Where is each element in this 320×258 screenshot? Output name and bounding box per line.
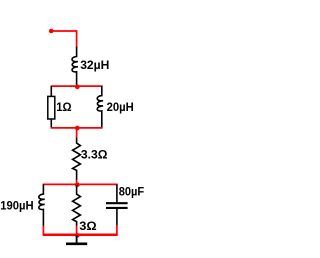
junction dot block2 top [75,182,80,187]
wire red stub above block2 bottom rail [76,226,78,235]
capacitor 80uF lead top [116,184,118,202]
wire red stub below block1 [76,128,78,138]
ground stub [76,235,78,243]
inductor 190uH body [39,184,45,226]
resistor 3.3ohm body zigzag [73,137,81,180]
capacitor 80uF plate bottom [106,207,128,209]
svg-text:32µH: 32µH [80,58,109,72]
wire block2 top rail [43,183,118,185]
label 80uF [119,184,144,198]
wire block1 top rail [51,85,103,87]
svg-text:3Ω: 3Ω [79,219,97,233]
svg-text:1Ω: 1Ω [56,100,72,114]
junction dot block2 bottom [75,233,80,238]
node IN terminal dot [49,29,54,34]
wire block1 bottom rail [51,127,103,129]
junction dot block1 bottom [75,126,80,131]
svg-text:3.3Ω: 3.3Ω [81,148,108,162]
ground bar [66,242,87,245]
capacitor 80uF lead bottom [116,209,118,225]
inductor 32uH body [72,47,78,86]
wire top horizontal + vertical to L1 [51,30,77,47]
resistor 1ohm lead top [50,86,52,96]
svg-text:20µH: 20µH [107,100,134,114]
label 20uH [107,100,134,114]
label 3ohm [79,219,97,233]
label 3.3ohm [81,148,108,162]
svg-text:190µH: 190µH [0,198,33,212]
junction dot block1 top [75,85,80,90]
resistor 1ohm body [48,96,55,119]
resistor 1ohm lead bottom [50,120,52,128]
label 1ohm [56,100,72,114]
wire red stub above block2 [76,180,78,185]
label 32uH [80,58,109,72]
inductor 20uH body [97,86,103,128]
resistor 3ohm body zigzag [73,185,81,226]
capacitor 80uF plate top [106,202,128,204]
wire block2 bottom rail with risers [43,225,118,235]
label 190uH [0,198,33,212]
svg-text:80µF: 80µF [119,184,144,198]
